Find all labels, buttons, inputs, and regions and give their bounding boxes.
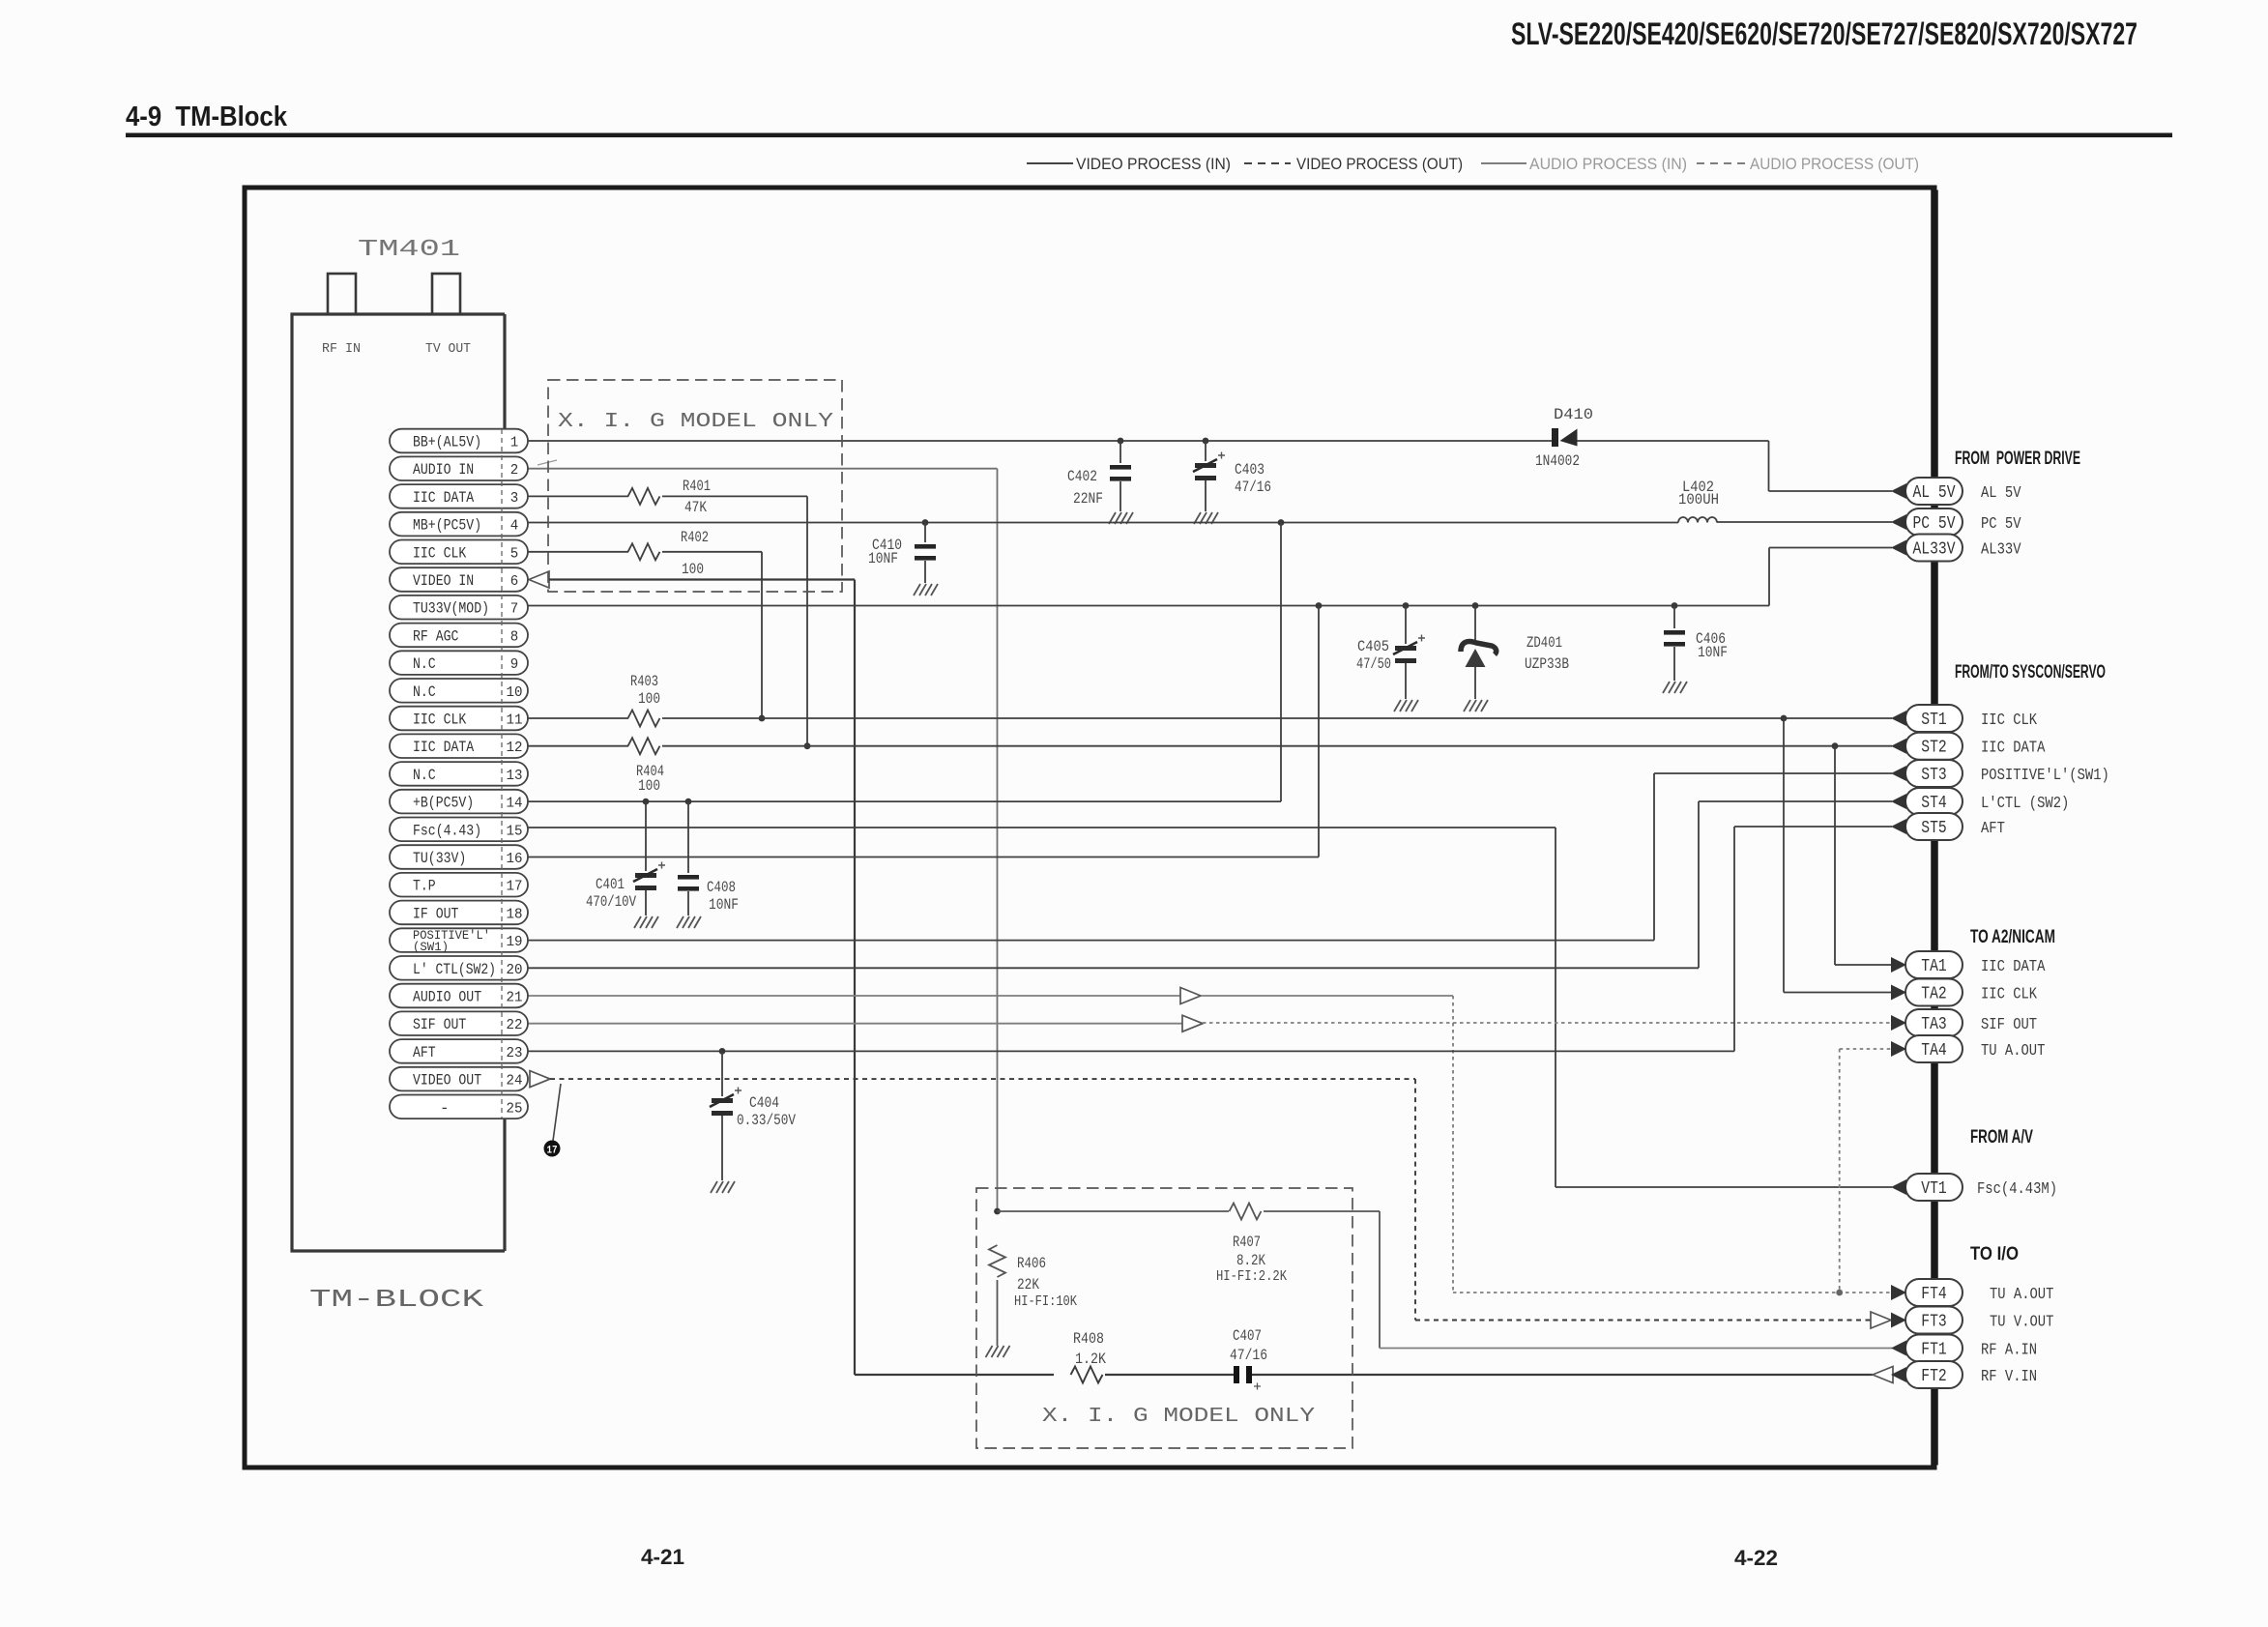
svg-text:BB+(AL5V): BB+(AL5V) — [413, 434, 481, 451]
svg-text:23: 23 — [507, 1045, 523, 1061]
svg-text:C402: C402 — [1067, 468, 1097, 485]
svg-text:Fsc(4.43M): Fsc(4.43M) — [1977, 1180, 2057, 1199]
svg-text:15: 15 — [507, 823, 523, 839]
svg-text:POSITIVE'L'(SW1): POSITIVE'L'(SW1) — [1981, 767, 2109, 785]
svg-text:VIDEO OUT: VIDEO OUT — [413, 1072, 481, 1090]
svg-text:IIC CLK: IIC CLK — [1981, 712, 2038, 730]
svg-text:ST2: ST2 — [1921, 739, 1946, 758]
svg-text:AFT: AFT — [1981, 820, 2005, 838]
svg-text:C408: C408 — [707, 879, 736, 896]
svg-text:AL 5V: AL 5V — [1981, 484, 2021, 503]
svg-text:N.C: N.C — [413, 767, 436, 784]
svg-text:R403: R403 — [630, 673, 658, 690]
svg-text:R407: R407 — [1233, 1234, 1261, 1251]
svg-text:C407: C407 — [1233, 1327, 1262, 1345]
svg-text:IIC DATA: IIC DATA — [1981, 740, 2046, 758]
svg-text:100: 100 — [682, 561, 704, 578]
svg-text:47/16: 47/16 — [1235, 479, 1271, 496]
svg-text:16: 16 — [507, 851, 523, 867]
svg-text:R406: R406 — [1017, 1255, 1046, 1272]
svg-text:R402: R402 — [681, 529, 709, 546]
svg-text:FT2: FT2 — [1921, 1367, 1946, 1386]
svg-text:AUDIO IN: AUDIO IN — [413, 461, 474, 479]
svg-text:FROM/TO SYSCON/SERVO: FROM/TO SYSCON/SERVO — [1955, 662, 2106, 683]
svg-text:17: 17 — [507, 879, 523, 895]
svg-text:8.2K: 8.2K — [1236, 1252, 1265, 1269]
svg-text:1.2K: 1.2K — [1075, 1351, 1106, 1368]
svg-text:Fsc(4.43): Fsc(4.43) — [413, 822, 481, 839]
svg-text:12: 12 — [507, 740, 523, 756]
svg-text:9: 9 — [510, 656, 519, 673]
svg-text:(SW1): (SW1) — [413, 940, 449, 954]
svg-text:AUDIO OUT: AUDIO OUT — [413, 989, 481, 1006]
svg-text:PC 5V: PC 5V — [1981, 515, 2021, 534]
svg-text:17: 17 — [547, 1146, 558, 1157]
svg-text:TM-BLOCK: TM-BLOCK — [309, 1285, 484, 1314]
svg-text:4-9 TM-Block: 4-9 TM-Block — [126, 102, 288, 132]
svg-text:SLV-SE220/SE420/SE620/SE720/SE: SLV-SE220/SE420/SE620/SE720/SE727/SE820/… — [1511, 16, 2137, 51]
svg-text:7: 7 — [510, 601, 519, 618]
svg-text:TU A.OUT: TU A.OUT — [1990, 1286, 2053, 1304]
svg-text:100: 100 — [638, 690, 660, 708]
svg-text:TU A.OUT: TU A.OUT — [1981, 1042, 2045, 1060]
svg-text:4-22: 4-22 — [1734, 1546, 1778, 1570]
svg-text:22NF: 22NF — [1073, 490, 1103, 508]
svg-text:14: 14 — [507, 796, 523, 812]
svg-text:AL33V: AL33V — [1913, 540, 1956, 560]
svg-text:TO I/O: TO I/O — [1970, 1244, 2019, 1264]
svg-text:IIC CLK: IIC CLK — [1981, 986, 2038, 1004]
svg-text:4: 4 — [510, 518, 519, 535]
svg-text:UZP33B: UZP33B — [1525, 655, 1569, 673]
svg-text:13: 13 — [507, 768, 523, 784]
svg-text:AL 5V: AL 5V — [1913, 483, 1956, 503]
svg-text:IF OUT: IF OUT — [413, 905, 458, 922]
svg-text:AL33V: AL33V — [1981, 541, 2021, 560]
svg-text:8: 8 — [510, 628, 519, 645]
svg-text:FROM POWER DRIVE: FROM POWER DRIVE — [1955, 449, 2080, 469]
svg-text:L' CTL(SW2): L' CTL(SW2) — [413, 961, 496, 978]
svg-text:IIC CLK: IIC CLK — [413, 712, 467, 729]
svg-text:3: 3 — [510, 490, 519, 507]
svg-text:TO A2/NICAM: TO A2/NICAM — [1970, 927, 2055, 947]
svg-text:SIF OUT: SIF OUT — [413, 1016, 466, 1033]
svg-text:-: - — [440, 1099, 450, 1117]
svg-text:22: 22 — [507, 1017, 523, 1033]
svg-text:TA1: TA1 — [1921, 957, 1946, 976]
svg-text:1: 1 — [510, 435, 519, 451]
svg-text:10NF: 10NF — [1698, 644, 1728, 661]
svg-text:R408: R408 — [1073, 1330, 1104, 1348]
svg-text:47K: 47K — [684, 499, 707, 516]
svg-text:AUDIO PROCESS (OUT): AUDIO PROCESS (OUT) — [1750, 155, 1919, 173]
svg-text:470/10V: 470/10V — [586, 893, 636, 911]
svg-text:47/16: 47/16 — [1230, 1347, 1267, 1364]
svg-text:5: 5 — [510, 545, 519, 562]
svg-text:D410: D410 — [1554, 406, 1593, 423]
svg-text:VIDEO PROCESS (IN): VIDEO PROCESS (IN) — [1076, 155, 1231, 173]
svg-text:RF IN: RF IN — [322, 341, 361, 357]
svg-text:R401: R401 — [683, 478, 711, 495]
svg-text:6: 6 — [510, 573, 519, 590]
svg-text:RF A.IN: RF A.IN — [1981, 1342, 2037, 1360]
svg-text:TA4: TA4 — [1921, 1041, 1946, 1060]
svg-text:N.C: N.C — [413, 683, 436, 701]
svg-text:T.P: T.P — [413, 878, 436, 895]
svg-text:HI-FI:10K: HI-FI:10K — [1014, 1293, 1077, 1310]
svg-text:PC 5V: PC 5V — [1913, 514, 1956, 534]
svg-text:100UH: 100UH — [1678, 491, 1719, 508]
svg-text:FROM A/V: FROM A/V — [1970, 1127, 2033, 1148]
svg-text:2: 2 — [510, 462, 519, 479]
svg-text:0.33/50V: 0.33/50V — [737, 1112, 796, 1129]
svg-text:L'CTL (SW2): L'CTL (SW2) — [1981, 795, 2069, 813]
svg-text:IIC CLK: IIC CLK — [413, 544, 467, 562]
svg-text:20: 20 — [507, 962, 523, 978]
svg-text:4-21: 4-21 — [641, 1545, 684, 1569]
svg-text:RF V.IN: RF V.IN — [1981, 1368, 2037, 1386]
svg-text:TU(33V): TU(33V) — [413, 850, 466, 867]
svg-text:TU V.OUT: TU V.OUT — [1990, 1314, 2053, 1332]
svg-text:RF AGC: RF AGC — [413, 627, 458, 645]
svg-text:FT3: FT3 — [1921, 1313, 1946, 1332]
svg-text:24: 24 — [507, 1073, 523, 1090]
svg-text:TA2: TA2 — [1921, 985, 1946, 1004]
svg-text:ST1: ST1 — [1921, 711, 1946, 730]
svg-text:+B(PC5V): +B(PC5V) — [413, 795, 474, 812]
svg-text:19: 19 — [507, 934, 523, 950]
svg-text:21: 21 — [507, 990, 523, 1006]
svg-text:10: 10 — [507, 684, 523, 701]
svg-text:ST4: ST4 — [1921, 794, 1946, 813]
svg-text:C405: C405 — [1357, 638, 1389, 655]
svg-text:AFT: AFT — [413, 1044, 436, 1061]
svg-text:C404: C404 — [749, 1094, 779, 1112]
svg-text:1N4002: 1N4002 — [1535, 452, 1580, 470]
svg-text:VIDEO IN: VIDEO IN — [413, 572, 474, 590]
svg-text:TM401: TM401 — [358, 237, 460, 263]
svg-text:FT4: FT4 — [1921, 1285, 1946, 1304]
svg-text:HI-FI:2.2K: HI-FI:2.2K — [1216, 1268, 1287, 1285]
svg-text:10NF: 10NF — [868, 550, 898, 567]
svg-text:25: 25 — [507, 1100, 523, 1117]
svg-text:ST5: ST5 — [1921, 819, 1946, 838]
svg-text:IIC DATA: IIC DATA — [413, 739, 475, 756]
svg-text:C401: C401 — [596, 876, 625, 893]
svg-text:TU33V(MOD): TU33V(MOD) — [413, 600, 489, 618]
svg-text:X. I. G MODEL ONLY: X. I. G MODEL ONLY — [558, 411, 833, 433]
svg-text:22K: 22K — [1017, 1276, 1039, 1293]
svg-text:11: 11 — [507, 712, 523, 729]
svg-text:SIF OUT: SIF OUT — [1981, 1016, 2037, 1034]
svg-text:VT1: VT1 — [1921, 1179, 1946, 1199]
svg-text:ZD401: ZD401 — [1527, 634, 1562, 652]
svg-text:TV OUT: TV OUT — [425, 341, 471, 357]
svg-text:C403: C403 — [1235, 461, 1265, 479]
svg-text:VIDEO PROCESS (OUT): VIDEO PROCESS (OUT) — [1296, 155, 1463, 173]
svg-text:ST3: ST3 — [1921, 766, 1946, 785]
svg-text:X. I. G MODEL ONLY: X. I. G MODEL ONLY — [1042, 1406, 1315, 1428]
svg-text:100: 100 — [638, 777, 660, 795]
svg-text:TA3: TA3 — [1921, 1015, 1946, 1034]
svg-text:10NF: 10NF — [709, 896, 739, 914]
svg-text:IIC DATA: IIC DATA — [1981, 958, 2046, 976]
svg-text:47/50: 47/50 — [1356, 655, 1391, 673]
svg-text:IIC DATA: IIC DATA — [413, 489, 475, 507]
svg-text:18: 18 — [507, 906, 523, 922]
svg-text:FT1: FT1 — [1921, 1341, 1946, 1360]
svg-text:N.C: N.C — [413, 655, 436, 673]
svg-text:MB+(PC5V): MB+(PC5V) — [413, 517, 481, 535]
svg-text:AUDIO PROCESS (IN): AUDIO PROCESS (IN) — [1529, 155, 1687, 173]
